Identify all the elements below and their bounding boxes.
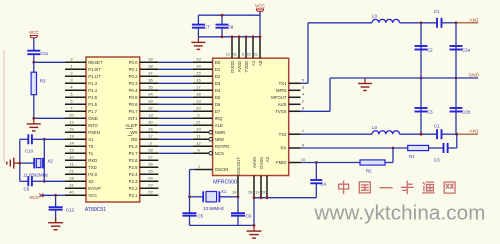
svg-text:X1: X1 bbox=[221, 189, 227, 194]
svg-text:C9: C9 bbox=[24, 187, 30, 192]
svg-text:P0.1: P0.1 bbox=[129, 67, 138, 72]
svg-text:A1: A1 bbox=[251, 60, 256, 66]
svg-text:19: 19 bbox=[196, 99, 201, 104]
svg-text:RXD: RXD bbox=[88, 158, 97, 163]
svg-text:18: 18 bbox=[69, 176, 74, 181]
svg-text:33: 33 bbox=[148, 99, 153, 104]
svg-text:21: 21 bbox=[254, 53, 258, 57]
svg-text:GND: GND bbox=[469, 73, 480, 78]
svg-text:23: 23 bbox=[261, 191, 265, 195]
svg-text:R3: R3 bbox=[40, 79, 46, 84]
svg-text:23: 23 bbox=[148, 183, 153, 188]
svg-text:DVSS: DVSS bbox=[259, 157, 264, 169]
svg-text:P1.4: P1.4 bbox=[88, 88, 97, 93]
svg-text:31: 31 bbox=[69, 183, 74, 188]
svg-text:D7: D7 bbox=[215, 109, 221, 114]
svg-text:15: 15 bbox=[196, 71, 201, 76]
svg-text:D5: D5 bbox=[215, 95, 221, 100]
svg-text:P1.1/T: P1.1/T bbox=[88, 74, 101, 79]
svg-text:39: 39 bbox=[148, 57, 153, 62]
svg-text:IRQ: IRQ bbox=[215, 116, 223, 121]
svg-text:6: 6 bbox=[242, 53, 244, 57]
svg-text:D6: D6 bbox=[215, 102, 221, 107]
svg-text:30: 30 bbox=[148, 120, 153, 125]
svg-text:X1: X1 bbox=[88, 137, 94, 142]
svg-text:20: 20 bbox=[69, 113, 74, 118]
svg-text:NWR: NWR bbox=[215, 130, 225, 135]
svg-text:AVDD: AVDD bbox=[237, 61, 242, 73]
svg-text:NRD: NRD bbox=[215, 137, 224, 142]
svg-text:15: 15 bbox=[69, 148, 74, 153]
svg-text:AT89C51: AT89C51 bbox=[85, 207, 106, 213]
svg-text:13: 13 bbox=[196, 57, 201, 62]
svg-text:INT0: INT0 bbox=[88, 123, 98, 128]
svg-text:RSTPD: RSTPD bbox=[215, 144, 230, 149]
svg-text:D3: D3 bbox=[215, 81, 221, 86]
svg-text:MFIN: MFIN bbox=[276, 88, 287, 93]
svg-text:TX2: TX2 bbox=[279, 132, 287, 137]
svg-text:27: 27 bbox=[148, 155, 153, 160]
svg-text:20: 20 bbox=[196, 106, 201, 111]
svg-text:P1.0/T: P1.0/T bbox=[88, 67, 101, 72]
svg-text:WR: WR bbox=[130, 130, 137, 135]
svg-text:12: 12 bbox=[69, 120, 74, 125]
svg-text:28: 28 bbox=[248, 191, 252, 195]
svg-text:R2: R2 bbox=[366, 169, 372, 174]
svg-text:31: 31 bbox=[233, 53, 237, 57]
svg-text:P0.7: P0.7 bbox=[129, 109, 138, 114]
svg-text:17: 17 bbox=[148, 134, 153, 139]
svg-text:P2.3: P2.3 bbox=[129, 179, 138, 184]
svg-text:VCC: VCC bbox=[88, 193, 97, 198]
svg-text:A2: A2 bbox=[265, 156, 270, 162]
svg-text:P0.4: P0.4 bbox=[129, 88, 138, 93]
svg-text:10: 10 bbox=[196, 127, 201, 132]
svg-text:26: 26 bbox=[148, 162, 153, 167]
svg-text:X2: X2 bbox=[88, 179, 94, 184]
svg-text:29: 29 bbox=[69, 127, 74, 132]
svg-text:16: 16 bbox=[196, 78, 201, 83]
svg-text:C2b: C2b bbox=[462, 110, 471, 115]
svg-text:P1.2: P1.2 bbox=[129, 144, 138, 149]
svg-text:RX: RX bbox=[281, 146, 287, 151]
svg-text:C3: C3 bbox=[427, 110, 433, 115]
svg-text:P0.0: P0.0 bbox=[129, 60, 138, 65]
svg-text:24: 24 bbox=[232, 191, 236, 195]
svg-text:19: 19 bbox=[69, 134, 74, 139]
svg-text:A0: A0 bbox=[258, 60, 263, 66]
svg-text:P1.6: P1.6 bbox=[88, 102, 97, 107]
svg-text:25: 25 bbox=[148, 169, 153, 174]
svg-text:MFOUT: MFOUT bbox=[271, 95, 287, 100]
svg-text:D0: D0 bbox=[215, 60, 221, 65]
svg-text:ALE/P: ALE/P bbox=[125, 123, 137, 128]
svg-text:RD: RD bbox=[131, 137, 137, 142]
svg-text:C10: C10 bbox=[25, 149, 34, 154]
svg-text:AN1: AN1 bbox=[470, 129, 480, 134]
svg-text:C1: C1 bbox=[434, 9, 440, 14]
svg-text:32: 32 bbox=[148, 106, 153, 111]
svg-text:14: 14 bbox=[196, 64, 201, 69]
svg-text:12: 12 bbox=[196, 141, 201, 146]
svg-text:C1: C1 bbox=[434, 123, 440, 128]
svg-text:28: 28 bbox=[148, 148, 153, 153]
svg-text:www.yktchina.com: www.yktchina.com bbox=[314, 202, 486, 225]
svg-text:AN2: AN2 bbox=[470, 17, 480, 22]
svg-text:10: 10 bbox=[69, 155, 74, 160]
svg-text:C3: C3 bbox=[434, 158, 440, 163]
svg-text:22: 22 bbox=[247, 53, 251, 57]
svg-text:36: 36 bbox=[148, 78, 153, 83]
svg-text:C12: C12 bbox=[66, 207, 75, 212]
svg-text:DVDD: DVDD bbox=[230, 61, 235, 73]
svg-text:P2.6: P2.6 bbox=[129, 158, 138, 163]
svg-text:21: 21 bbox=[196, 120, 201, 125]
svg-text:ALE: ALE bbox=[215, 123, 223, 128]
svg-text:EA/VP: EA/VP bbox=[88, 186, 101, 191]
svg-text:37: 37 bbox=[148, 71, 153, 76]
svg-text:P0.2: P0.2 bbox=[129, 74, 138, 79]
svg-text:INT1: INT1 bbox=[128, 116, 138, 121]
svg-text:34: 34 bbox=[148, 92, 153, 97]
svg-text:C5: C5 bbox=[198, 213, 204, 218]
svg-text:22: 22 bbox=[148, 190, 153, 195]
svg-text:R1: R1 bbox=[409, 154, 415, 159]
svg-text:P2.1: P2.1 bbox=[129, 193, 138, 198]
svg-text:NCS: NCS bbox=[215, 151, 224, 156]
svg-text:PSEN: PSEN bbox=[88, 130, 100, 135]
svg-text:17: 17 bbox=[196, 85, 201, 90]
svg-text:P0.6: P0.6 bbox=[129, 102, 138, 107]
svg-text:GND: GND bbox=[88, 116, 98, 121]
svg-text:L0: L0 bbox=[372, 125, 377, 130]
svg-text:T0: T0 bbox=[88, 144, 94, 149]
svg-text:D4: D4 bbox=[215, 88, 221, 93]
svg-text:10: 10 bbox=[301, 157, 306, 162]
svg-text:TXD: TXD bbox=[88, 165, 97, 170]
svg-text:P2.2: P2.2 bbox=[129, 186, 138, 191]
svg-text:21: 21 bbox=[69, 169, 74, 174]
svg-text:13: 13 bbox=[148, 113, 153, 118]
svg-text:C2: C2 bbox=[427, 48, 433, 53]
svg-text:38: 38 bbox=[148, 64, 153, 69]
svg-text:L0: L0 bbox=[372, 14, 377, 19]
svg-text:AVSS: AVSS bbox=[252, 157, 257, 168]
svg-text:TVSS: TVSS bbox=[275, 109, 286, 114]
svg-text:TVDD: TVDD bbox=[244, 61, 249, 73]
svg-text:P2.7: P2.7 bbox=[129, 151, 138, 156]
svg-text:VCC: VCC bbox=[255, 4, 265, 9]
svg-text:P0.5: P0.5 bbox=[129, 95, 138, 100]
svg-text:16: 16 bbox=[148, 127, 153, 132]
svg-text:RESET: RESET bbox=[88, 60, 103, 65]
svg-text:P2.0: P2.0 bbox=[88, 172, 97, 177]
svg-text:VCC: VCC bbox=[29, 195, 39, 200]
svg-text:T1: T1 bbox=[88, 151, 94, 156]
svg-text:C8: C8 bbox=[228, 24, 234, 29]
svg-text:C4: C4 bbox=[321, 181, 327, 186]
svg-text:X2: X2 bbox=[48, 158, 54, 163]
svg-text:FMID: FMID bbox=[276, 160, 287, 165]
svg-text:D2: D2 bbox=[215, 74, 221, 79]
svg-text:TX1: TX1 bbox=[279, 81, 287, 86]
svg-text:P1.7: P1.7 bbox=[88, 109, 97, 114]
svg-text:C2a: C2a bbox=[462, 48, 471, 53]
svg-text:14: 14 bbox=[69, 141, 74, 146]
svg-text:P1.3: P1.3 bbox=[88, 81, 97, 86]
svg-text:P1.5: P1.5 bbox=[88, 95, 97, 100]
svg-text:P2.4: P2.4 bbox=[129, 172, 138, 177]
svg-text:24: 24 bbox=[148, 176, 153, 181]
svg-text:P2.5: P2.5 bbox=[129, 165, 138, 170]
svg-text:C7: C7 bbox=[204, 24, 210, 29]
svg-text:P0.3: P0.3 bbox=[129, 81, 138, 86]
svg-text:35: 35 bbox=[148, 85, 153, 90]
svg-text:D1: D1 bbox=[215, 67, 221, 72]
svg-text:40: 40 bbox=[69, 190, 74, 195]
svg-text:AUX: AUX bbox=[278, 102, 287, 107]
svg-text:MFRC500: MFRC500 bbox=[213, 179, 237, 185]
svg-text:VCC: VCC bbox=[29, 30, 39, 35]
svg-text:13: 13 bbox=[255, 191, 259, 195]
svg-text:12: 12 bbox=[226, 53, 230, 57]
svg-text:18: 18 bbox=[196, 92, 201, 97]
svg-text:13.56MHz: 13.56MHz bbox=[203, 206, 225, 211]
svg-text:OSCOUT: OSCOUT bbox=[236, 157, 241, 176]
svg-text:OSCIN: OSCIN bbox=[215, 167, 229, 172]
svg-text:C11: C11 bbox=[41, 51, 49, 56]
svg-text:11.0592MHz: 11.0592MHz bbox=[23, 173, 49, 178]
svg-text:C6: C6 bbox=[246, 213, 252, 218]
